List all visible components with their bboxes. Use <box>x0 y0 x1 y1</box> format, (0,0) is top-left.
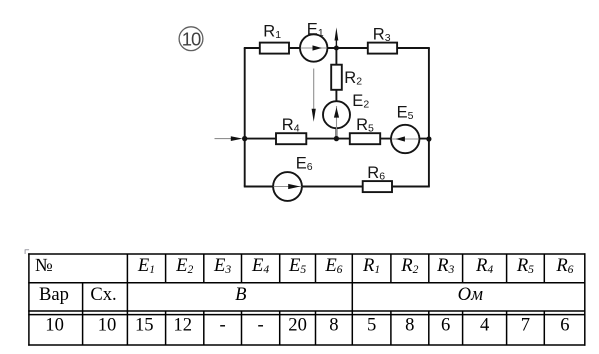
svg-text:12: 12 <box>173 315 192 336</box>
svg-text:Сх.: Сх. <box>90 284 116 305</box>
svg-text:15: 15 <box>135 315 154 336</box>
svg-text:5: 5 <box>367 315 376 336</box>
svg-text:4: 4 <box>480 315 489 336</box>
svg-text:20: 20 <box>288 315 307 336</box>
svg-text:-: - <box>257 315 263 336</box>
svg-text:10: 10 <box>182 28 201 49</box>
svg-text:6: 6 <box>560 315 569 336</box>
svg-text:№: № <box>35 255 53 276</box>
svg-text:В: В <box>235 284 246 305</box>
svg-text:6: 6 <box>441 315 450 336</box>
svg-text:10: 10 <box>98 315 117 336</box>
svg-text:10: 10 <box>45 315 64 336</box>
svg-text:8: 8 <box>329 315 338 336</box>
svg-text:Ом: Ом <box>458 284 483 305</box>
svg-text:-: - <box>219 315 225 336</box>
svg-text:7: 7 <box>521 315 530 336</box>
svg-text:Вар: Вар <box>39 284 69 305</box>
svg-text:8: 8 <box>405 315 414 336</box>
